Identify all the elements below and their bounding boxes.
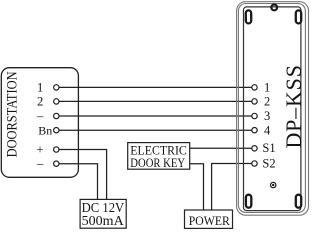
svg-text:1: 1 [264, 81, 270, 95]
svg-text:500mA: 500mA [82, 213, 125, 228]
wire electric door key to S1 [190, 147, 252, 149]
svg-text:2: 2 [37, 95, 43, 109]
wire + to DC supply [59, 150, 107, 200]
wire S2 to power box [212, 164, 252, 211]
svg-text:2: 2 [264, 95, 270, 109]
svg-text:Bn: Bn [38, 124, 52, 138]
door panel DP-KSS second bezel line [238, 4, 305, 213]
electric door key box [128, 143, 190, 170]
svg-text:S2: S2 [262, 157, 275, 171]
svg-text:1: 1 [37, 81, 43, 95]
terminal circle S1 (panel) [252, 146, 257, 151]
svg-text:DOORSTATION: DOORSTATION [4, 71, 20, 157]
terminal circle S2 (panel) [252, 161, 257, 166]
svg-text:4: 4 [264, 123, 271, 137]
screw at panel top [271, 5, 277, 11]
wire row1 doorstation1 to panel1 [59, 86, 252, 88]
svg-text:ELECTRIC: ELECTRIC [130, 143, 187, 157]
mounting slot top-right [296, 10, 301, 23]
terminal circle 1 (doorstation) [54, 85, 59, 90]
terminal circle 1 (panel) [252, 85, 257, 90]
wire row2 doorstation2 to panel2 [59, 100, 252, 102]
doorstation box U1 [1, 68, 78, 178]
terminal circle 3 (panel) [252, 113, 257, 118]
door panel DP-KSS outer bezel [237, 2, 309, 216]
mounting slot bottom-right [296, 195, 301, 208]
terminal circle 4 (panel) [252, 128, 257, 133]
wire row3 doorstation- to panel3 [59, 115, 252, 117]
svg-text:+: + [36, 142, 43, 156]
mounting slot top-left [246, 10, 251, 23]
terminal circle 2 (panel) [252, 99, 257, 104]
svg-text:–: – [36, 157, 44, 171]
terminal circle 2 (doorstation) [54, 99, 59, 104]
terminal circle Bn (doorstation) [54, 128, 59, 133]
terminal circle - (doorstation) [54, 113, 59, 118]
svg-text:–: – [36, 109, 44, 123]
wire - to DC supply [59, 164, 98, 200]
svg-text:3: 3 [264, 109, 270, 123]
wire row4 doorstationBn to panel4 [59, 129, 252, 131]
terminal circle - bottom (doorstation) [54, 161, 59, 166]
mounting slot bottom-left [246, 195, 251, 208]
speaker hole target at panel bottom [271, 182, 276, 187]
svg-text:POWER: POWER [189, 214, 231, 228]
terminal circle + (doorstation) [54, 147, 59, 152]
svg-text:S1: S1 [262, 141, 275, 155]
svg-text:DP–KSS: DP–KSS [281, 65, 306, 149]
wire electric door key to power box [190, 164, 204, 210]
door panel DP-KSS inner face plate [244, 7, 301, 211]
power box [185, 210, 233, 228]
svg-text:DOOR KEY: DOOR KEY [130, 156, 185, 170]
DC 12V 500mA power supply box [80, 199, 126, 228]
